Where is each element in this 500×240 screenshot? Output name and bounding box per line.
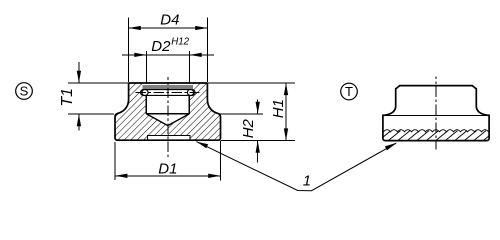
svg-text:D2: D2 (151, 38, 171, 55)
svg-text:D4: D4 (160, 11, 179, 28)
svg-text:1: 1 (303, 173, 311, 190)
svg-text:T1: T1 (59, 88, 76, 107)
svg-text:H12: H12 (171, 36, 189, 47)
svg-text:T: T (345, 84, 353, 99)
svg-text:S: S (20, 84, 29, 99)
svg-text:D1: D1 (158, 160, 177, 177)
svg-text:H2: H2 (240, 118, 257, 138)
svg-text:H1: H1 (270, 99, 287, 118)
